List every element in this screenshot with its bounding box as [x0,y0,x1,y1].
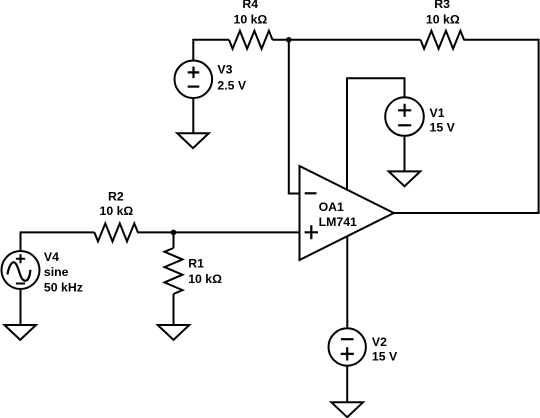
svg-text:15 V: 15 V [372,349,398,363]
svg-text:15 V: 15 V [430,120,456,134]
svg-text:R1: R1 [188,256,204,270]
svg-text:10 kΩ: 10 kΩ [234,13,268,27]
svg-text:R2: R2 [108,190,124,204]
svg-text:sine: sine [44,265,69,279]
svg-text:R3: R3 [434,0,450,11]
svg-text:LM741: LM741 [319,215,357,229]
svg-text:2.5 V: 2.5 V [217,79,247,93]
svg-text:10 kΩ: 10 kΩ [426,13,460,27]
svg-text:10 kΩ: 10 kΩ [188,272,222,286]
svg-text:V2: V2 [372,335,387,349]
svg-text:V1: V1 [430,106,445,120]
svg-text:V4: V4 [44,250,59,264]
svg-text:OA1: OA1 [319,200,344,214]
svg-text:50 kHz: 50 kHz [44,280,83,294]
svg-text:R4: R4 [242,0,258,11]
svg-text:10 kΩ: 10 kΩ [100,204,134,218]
svg-text:V3: V3 [217,63,232,77]
